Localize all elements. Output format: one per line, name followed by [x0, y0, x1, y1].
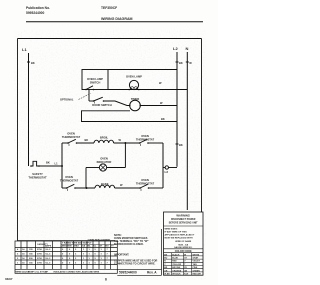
- node after broil: [124, 142, 126, 144]
- svg-text:BROIL: BROIL: [100, 136, 109, 140]
- svg-text:UL-3: UL-3: [46, 254, 52, 256]
- wire box top to L2: [108, 69, 177, 71]
- optional leader line: [79, 94, 91, 100]
- svg-text:2700: 2700: [37, 249, 43, 251]
- svg-text:WH-BLK: WH-BLK: [172, 274, 181, 276]
- wire L1 to junction: [39, 165, 62, 167]
- svg-text:NO: NO: [106, 246, 110, 248]
- notes block: [114, 234, 158, 265]
- switch pin ticks: [68, 102, 142, 192]
- svg-text:03/97: 03/97: [5, 277, 13, 281]
- svg-text:OVEN: OVEN: [141, 134, 149, 138]
- publication number header: [26, 6, 50, 15]
- wire gauge table: [15, 241, 117, 273]
- svg-text:THERMOSTAT: THERMOSTAT: [136, 138, 155, 142]
- svg-text:OVEN LAMP: OVEN LAMP: [126, 75, 142, 79]
- oven lamp: [126, 75, 142, 91]
- wire box bottom to door switch: [88, 90, 90, 102]
- svg-text:IMPORTANT:: IMPORTANT:: [114, 254, 129, 257]
- svg-text:L2: L2: [173, 46, 178, 51]
- svg-text:THERMOSTAT: THERMOSTAT: [62, 135, 81, 139]
- svg-text:T WIRE REPLACEMENT: T WIRE REPLACEMENT: [88, 238, 112, 241]
- svg-text:GREEN: GREEN: [193, 270, 201, 272]
- svg-text:6: 6: [105, 278, 107, 282]
- svg-text:WIRING DIAGRAM: WIRING DIAGRAM: [101, 17, 133, 21]
- wire right vertical join: [162, 143, 164, 188]
- svg-text:SWITCH: SWITCH: [90, 81, 101, 85]
- svg-text:TEMP C: TEMP C: [28, 271, 37, 273]
- oven thermostat switch (broil, right): [136, 134, 163, 144]
- svg-text:OVEN: OVEN: [65, 175, 73, 179]
- svg-text:N: N: [186, 46, 189, 51]
- svg-text:TAN: TAN: [193, 263, 198, 266]
- wire L2 bus vertical: [176, 52, 178, 167]
- svg-text:GA: GA: [82, 245, 86, 248]
- svg-text:CONNECTIONS TO CIRCUIT WIRE.: CONNECTIONS TO CIRCUIT WIRE.: [114, 262, 156, 265]
- svg-text:R-W: R-W: [184, 274, 188, 276]
- svg-text:5995244000: 5995244000: [119, 271, 137, 275]
- svg-text:VIOLET: VIOLET: [193, 261, 201, 263]
- wire junction vertical: [61, 143, 63, 188]
- oven thermostat switch (bake, right): [136, 178, 163, 189]
- svg-text:OVEN: OVEN: [100, 157, 108, 161]
- svg-text:OVEN: OVEN: [67, 132, 75, 136]
- safety thermostat: [28, 161, 47, 179]
- junction node: [61, 165, 63, 167]
- svg-text:YELLOW: YELLOW: [172, 264, 181, 266]
- svg-text:Publication No.: Publication No.: [26, 6, 50, 10]
- wire gauge table text: [16, 242, 115, 274]
- svg-text:2700: 2700: [37, 254, 43, 256]
- timer motor: [129, 97, 141, 111]
- header rule: [26, 21, 203, 23]
- wire indicator to bake node: [85, 168, 87, 189]
- svg-text:W: W: [184, 254, 186, 256]
- title bar: [117, 229, 161, 275]
- svg-text:SHOWN DOOR CLOSED.: SHOWN DOOR CLOSED.: [114, 243, 144, 246]
- svg-text:UL-3: UL-3: [46, 263, 52, 265]
- svg-text:BROWN: BROWN: [172, 267, 180, 269]
- svg-text:IF ANY WIRE OF THIS: IF ANY WIRE OF THIS: [165, 231, 188, 234]
- svg-text:MUST BE REPLACED WITH: MUST BE REPLACED WITH: [165, 237, 194, 240]
- svg-text:BLACK: BLACK: [172, 253, 180, 256]
- svg-text:THERMOSTAT: THERMOSTAT: [28, 176, 47, 180]
- svg-text:BK: BK: [179, 61, 183, 65]
- svg-text:RED: RED: [172, 261, 177, 263]
- wire door switch to timer: [104, 101, 130, 106]
- svg-text:2700: 2700: [37, 258, 43, 260]
- svg-text:BK: BK: [31, 61, 35, 65]
- svg-text:BLUE: BLUE: [172, 258, 178, 260]
- oven lamp switch contacts: [85, 89, 87, 91]
- svg-text:T RATED WIRE AND SUPPLY: T RATED WIRE AND SUPPLY: [62, 242, 92, 245]
- wire gauge table sub-header line: [61, 243, 117, 245]
- svg-text:SIZE - GA: SIZE - GA: [178, 243, 188, 246]
- broil element: [94, 136, 114, 144]
- oven indicator lamp: [86, 157, 125, 172]
- svg-text:BK: BK: [161, 117, 165, 121]
- door switch: [89, 97, 112, 107]
- svg-text:BK: BK: [46, 161, 50, 165]
- svg-text:UL-3: UL-3: [46, 258, 52, 260]
- svg-text:W-BK: W-BK: [164, 274, 170, 276]
- svg-text:MAX: MAX: [74, 245, 79, 248]
- svg-text:GRAY: GRAY: [193, 257, 199, 260]
- svg-text:GN: GN: [184, 270, 188, 272]
- svg-text:BK: BK: [164, 254, 167, 256]
- svg-text:5995244000: 5995244000: [26, 11, 45, 15]
- schematic border frame: [18, 39, 202, 241]
- svg-text:UL-3: UL-3: [46, 249, 52, 251]
- svg-text:ORANGE: ORANGE: [172, 269, 182, 272]
- svg-text:BK: BK: [85, 138, 89, 142]
- svg-text:AWG: AWG: [62, 245, 67, 248]
- svg-text:RED-WH: RED-WH: [193, 274, 202, 276]
- svg-text:DOOR SWITCH: DOOR SWITCH: [92, 103, 111, 107]
- svg-text:THERMOSTAT: THERMOSTAT: [136, 182, 155, 186]
- wire timer return loop: [82, 111, 178, 122]
- svg-text:2700: 2700: [37, 263, 43, 265]
- svg-text:OPTIONAL: OPTIONAL: [60, 98, 74, 102]
- svg-text:WIRE SIZES:: WIRE SIZES:: [165, 229, 178, 231]
- warning box: [164, 212, 204, 276]
- wire N bus vertical: [186, 52, 188, 210]
- wire lamp run to N: [108, 89, 187, 91]
- svg-text:MIN: MIN: [68, 246, 72, 248]
- L2 tick: [176, 61, 179, 63]
- wire broil to node: [114, 142, 140, 144]
- svg-text:WARNING: WARNING: [176, 214, 190, 218]
- svg-text:AMPS: AMPS: [45, 245, 52, 248]
- svg-text:WHITE: WHITE: [193, 254, 200, 256]
- svg-text:L1: L1: [22, 47, 27, 52]
- svg-text:Rev. A: Rev. A: [147, 271, 157, 275]
- svg-text:L2: L2: [165, 170, 169, 174]
- svg-text:PINK: PINK: [193, 267, 198, 269]
- L2 lower tick: [176, 143, 179, 145]
- node before bake: [86, 187, 88, 189]
- N tick: [186, 61, 189, 63]
- wire L1 bus vertical: [28, 53, 30, 166]
- svg-text:BK: BK: [179, 143, 183, 147]
- svg-text:INSULATED CONNECTOR LEADS AND: INSULATED CONNECTOR LEADS AND WIRE: [54, 270, 100, 273]
- color code table: [164, 253, 204, 276]
- svg-text:WIRE OF SAME: WIRE OF SAME: [175, 240, 192, 243]
- wire to bake element: [75, 187, 95, 189]
- svg-text:THERMOSTAT: THERMOSTAT: [60, 179, 79, 183]
- oven thermostat switch (broil, left): [62, 132, 81, 144]
- bake element: [95, 182, 115, 188]
- svg-text:INDICATOR: INDICATOR: [97, 160, 112, 164]
- wire bake to switch: [115, 187, 140, 189]
- svg-text:TEF350CF: TEF350CF: [101, 6, 117, 10]
- oven lamp switch box: [82, 70, 108, 90]
- oven thermostat switch (bake, left): [60, 175, 79, 189]
- svg-text:SAFETY: SAFETY: [32, 172, 43, 176]
- wire indicator to broil node: [124, 143, 126, 168]
- L2 terminal: [163, 166, 177, 174]
- svg-text:BR: BR: [164, 267, 167, 269]
- svg-text:DISCONNECT POWER: DISCONNECT POWER: [171, 219, 196, 221]
- svg-text:OVEN: OVEN: [141, 178, 149, 182]
- svg-text:APPLIANCE IS REPLACED IT: APPLIANCE IS REPLACED IT: [165, 234, 196, 237]
- svg-text:OVEN LAMP: OVEN LAMP: [87, 77, 103, 81]
- L1 tick: [27, 61, 30, 63]
- wire timer to L2: [140, 105, 177, 107]
- wire to broil element: [77, 142, 95, 144]
- svg-text:BU: BU: [164, 258, 167, 260]
- svg-text:BEFORE SERVICING UNIT: BEFORE SERVICING UNIT: [169, 222, 198, 224]
- svg-text:OR: OR: [164, 270, 168, 272]
